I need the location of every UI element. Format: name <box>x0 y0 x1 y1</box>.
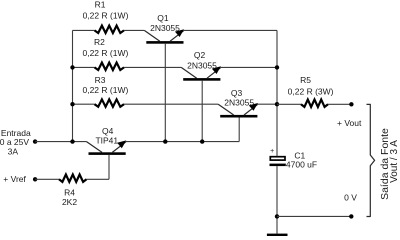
node junction Q2 base on bus <box>200 139 204 143</box>
svg-text:0,22 R (1W): 0,22 R (1W) <box>83 10 129 20</box>
node junction left bus row2 <box>70 65 74 69</box>
node Vref terminal <box>33 177 37 181</box>
wire: Entrada to Q4 collector <box>35 141 86 143</box>
wire: left input bus vertical <box>72 30 74 141</box>
svg-text:+ Vref: + Vref <box>3 174 26 184</box>
wire: Vref to R4 <box>35 178 59 180</box>
transistor Q1 <box>144 29 184 43</box>
svg-text:Q2: Q2 <box>194 50 206 60</box>
wire: base bus Q4 emitter to Q3 base <box>126 141 239 143</box>
wire: row1 bus to R1 <box>73 29 95 31</box>
wire: right bus below capacitor to ground <box>276 166 278 234</box>
svg-text:0,22 R (1W): 0,22 R (1W) <box>82 85 128 95</box>
svg-text:+: + <box>270 148 274 155</box>
wire: Q1 base down to base bus <box>164 44 166 142</box>
node junction left bus row3 <box>70 102 74 106</box>
wire: R1 to Q1 <box>124 29 144 31</box>
node Entrada terminal <box>33 139 37 143</box>
capacitor C1 top plate <box>270 157 285 160</box>
svg-text:R3: R3 <box>95 75 106 85</box>
wire: R5 to Vout terminal <box>328 103 351 105</box>
wire: Q3 emitter to right bus <box>258 103 277 105</box>
wire: R3 to Q3 <box>124 103 218 105</box>
resistor R2 <box>95 63 125 70</box>
svg-text:2N3055: 2N3055 <box>187 61 217 71</box>
node junction 0V row <box>275 214 279 218</box>
wire: Q4 base down to R4 row <box>108 155 110 179</box>
svg-text:0 V: 0 V <box>344 193 357 203</box>
wire: R5 row from bus <box>277 103 301 105</box>
wire: row2 bus to R2 <box>73 66 95 68</box>
wire: Q2 emitter to right bus <box>221 66 277 68</box>
svg-text:+ Vout: + Vout <box>337 118 362 128</box>
wire: right output bus top <box>276 30 278 155</box>
node junction right bus row2 <box>275 65 279 69</box>
node Vout terminal <box>349 102 353 106</box>
svg-text:Vout / 3 A: Vout / 3 A <box>389 140 400 183</box>
wire: Q2 base down to base bus <box>201 81 203 142</box>
svg-text:R5: R5 <box>300 75 311 85</box>
svg-text:2N3055: 2N3055 <box>224 98 254 108</box>
wire: Q3 base down to base bus corner <box>238 118 240 142</box>
wire: R4 to Q4 base corner <box>87 178 110 180</box>
svg-text:2K2: 2K2 <box>62 197 77 207</box>
transistor Q3 <box>218 103 258 118</box>
svg-text:TIP41: TIP41 <box>95 135 118 145</box>
wire: R2 to Q2 <box>124 66 181 68</box>
wire: row3 bus to R3 <box>73 103 95 105</box>
node junction right bus row3 <box>275 102 279 106</box>
ground <box>267 234 288 237</box>
svg-text:2N3055: 2N3055 <box>150 23 180 33</box>
transistor Q4 <box>87 140 127 155</box>
svg-text:Q1: Q1 <box>157 13 169 23</box>
resistor R5 <box>301 100 328 107</box>
resistor R1 <box>95 26 125 33</box>
transistor Q2 <box>181 66 221 81</box>
svg-text:R2: R2 <box>94 37 105 47</box>
svg-text:0,22 R (3W): 0,22 R (3W) <box>288 86 334 96</box>
brace output bracket <box>367 104 375 216</box>
svg-text:3A: 3A <box>8 146 19 156</box>
capacitor C1 bottom plate <box>270 164 286 167</box>
node 0V terminal <box>349 214 353 218</box>
resistor R4 <box>59 175 87 182</box>
svg-text:R1: R1 <box>95 0 106 9</box>
wire: 0V row <box>277 215 351 217</box>
svg-text:4700 uF: 4700 uF <box>286 159 317 169</box>
svg-text:Q3: Q3 <box>231 88 243 98</box>
wire: Q1 emitter to right bus <box>184 29 277 31</box>
resistor R3 <box>95 99 125 106</box>
svg-text:0,22 R (1W): 0,22 R (1W) <box>82 48 128 58</box>
node junction left bus entrada <box>70 139 74 143</box>
node junction Q1 base on bus <box>163 139 167 143</box>
